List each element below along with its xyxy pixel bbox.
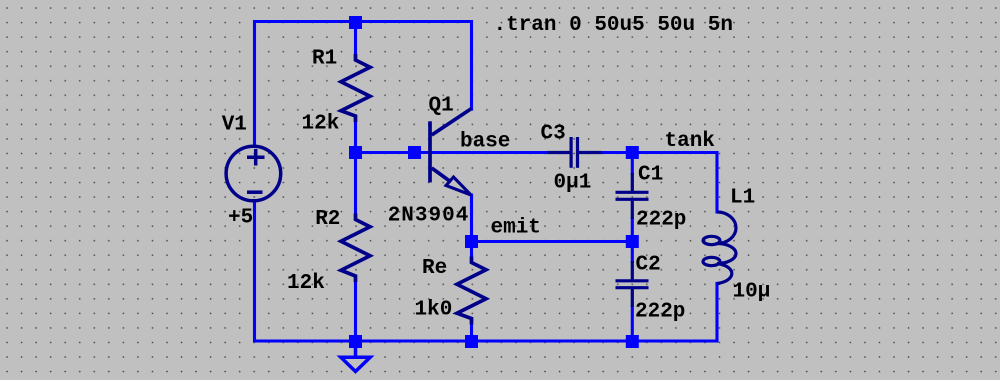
node Re bottom — [465, 335, 478, 348]
ground — [341, 346, 370, 372]
wire R1 top — [354, 22, 357, 55]
svg-text:12k: 12k — [287, 272, 325, 295]
transistor Q1 — [430, 109, 472, 196]
wire C3 to tank corner and down to L1 — [602, 153, 718, 213]
node base left (R1/R2 divider) — [349, 146, 362, 159]
svg-text:0µ1: 0µ1 — [554, 172, 592, 195]
resistor Re — [457, 257, 486, 325]
svg-text:C1: C1 — [638, 164, 663, 187]
svg-text:10µ: 10µ — [733, 281, 771, 304]
svg-text:222p: 222p — [635, 301, 685, 324]
capacitor C1 — [616, 173, 649, 219]
wire top rail — [255, 22, 472, 147]
node top R1/V1 — [349, 16, 362, 29]
wire Re bottom — [470, 325, 473, 342]
svg-text:1k0: 1k0 — [415, 299, 453, 322]
inductor L1 — [703, 212, 736, 284]
wire tank column C1 top — [631, 153, 634, 174]
resistor R1 — [341, 54, 370, 122]
svg-text:12k: 12k — [302, 113, 340, 136]
wire Re top — [470, 242, 473, 257]
wire C1 bottom to C2 top — [631, 219, 634, 261]
svg-text:V1: V1 — [222, 114, 247, 137]
wire L1 bottom — [715, 284, 718, 342]
svg-text:Re: Re — [422, 257, 447, 280]
node junction squares — [349, 16, 639, 348]
svg-text:C2: C2 — [636, 254, 661, 277]
wire R1 bottom to R2 top — [354, 122, 357, 214]
node ground junction — [349, 335, 362, 348]
node emit right (C1/C2 mid) — [626, 235, 639, 248]
wire V1 bottom to rail — [255, 201, 718, 341]
wire emit row — [472, 240, 633, 243]
node base pin Q1 — [408, 146, 421, 159]
node emit left — [465, 235, 478, 248]
wire C2 bottom — [631, 307, 634, 341]
svg-text:222p: 222p — [636, 209, 686, 232]
node C2 bottom — [626, 335, 639, 348]
svg-text:2N3904: 2N3904 — [388, 205, 470, 228]
capacitor C2 — [616, 261, 649, 307]
node tank — [626, 146, 639, 159]
resistor R2 — [341, 214, 370, 283]
svg-text:emit: emit — [491, 217, 541, 240]
svg-text:R1: R1 — [312, 47, 337, 70]
svg-text:R2: R2 — [315, 208, 340, 231]
wire base — [356, 151, 548, 154]
voltage source V1 — [226, 146, 281, 201]
wire emitter down — [470, 195, 473, 242]
wire R2 bottom to ground rail — [354, 282, 357, 341]
svg-text:+5: +5 — [228, 206, 253, 229]
svg-text:L1: L1 — [730, 187, 755, 210]
svg-text:C3: C3 — [541, 123, 566, 146]
svg-text:.tran 0 50u5 50u 5n: .tran 0 50u5 50u 5n — [494, 14, 733, 37]
svg-text:tank: tank — [665, 130, 715, 153]
capacitor C3 — [548, 137, 602, 168]
svg-text:Q1: Q1 — [429, 95, 454, 118]
svg-text:base: base — [460, 131, 510, 154]
